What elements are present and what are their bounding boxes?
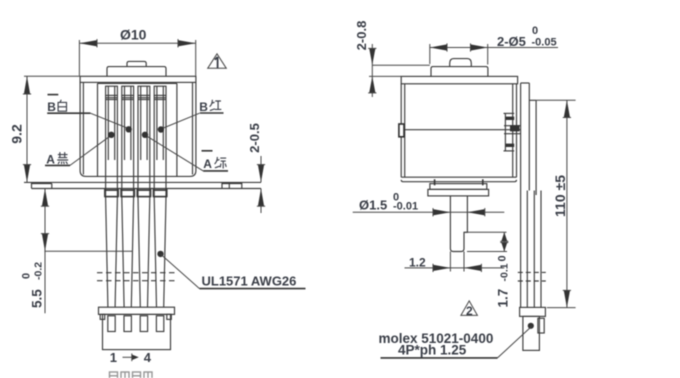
svg-text:A: A (46, 153, 55, 167)
svg-text:1.2: 1.2 (409, 255, 426, 269)
svg-text:0: 0 (532, 25, 538, 37)
svg-text:1.7: 1.7 (496, 289, 511, 308)
svg-text:0: 0 (497, 255, 509, 261)
svg-text:Ø1.5: Ø1.5 (359, 198, 387, 213)
svg-text:B: B (47, 100, 56, 114)
svg-text:2-Ø5: 2-Ø5 (497, 34, 526, 49)
svg-text:A: A (203, 157, 212, 171)
svg-text:-0.05: -0.05 (532, 37, 557, 49)
svg-text:5.5: 5.5 (30, 289, 45, 308)
svg-text:-0.2: -0.2 (33, 262, 45, 280)
svg-text:2-0.8: 2-0.8 (354, 21, 369, 51)
svg-text:2-0.5: 2-0.5 (247, 123, 262, 153)
svg-text:1: 1 (110, 350, 117, 365)
svg-text:Ø10: Ø10 (120, 27, 147, 43)
svg-text:-0.1: -0.1 (499, 263, 511, 281)
svg-text:110 ±5: 110 ±5 (552, 175, 568, 217)
svg-text:UL1571 AWG26: UL1571 AWG26 (202, 274, 297, 289)
svg-text:2: 2 (466, 304, 473, 318)
svg-text:9.2: 9.2 (9, 124, 25, 144)
svg-text:0: 0 (21, 273, 33, 279)
svg-text:4P*ph 1.25: 4P*ph 1.25 (398, 342, 467, 357)
svg-text:4: 4 (144, 350, 152, 365)
svg-text:B: B (199, 100, 208, 114)
svg-text:-0.01: -0.01 (393, 200, 418, 212)
